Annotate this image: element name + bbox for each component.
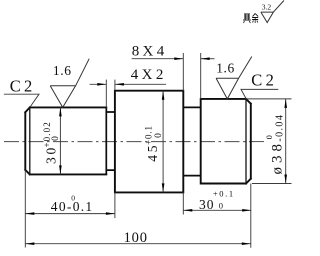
dimension 100 line [25,243,251,245]
extension line right face below (for 30 and 100) [250,184,252,248]
extension line middle-left below (for 40) [114,192,116,218]
dimension 40-0.1 line [25,213,115,215]
chamfer note C2 left leader [4,94,39,107]
groove 8x4 roots [183,107,200,175]
svg-text:1.6: 1.6 [53,63,72,78]
groove 4x2 left wall [105,107,107,174]
svg-text:0: 0 [264,135,274,139]
dimension dia38 text [264,114,286,175]
svg-text:100: 100 [124,230,148,246]
extension line groove1 left above [105,80,107,108]
svg-text:3.2: 3.2 [262,2,272,11]
dimension 30+0.02 text [42,121,61,164]
extension line middle-right above (for 8x4) [182,53,184,91]
svg-text:0: 0 [154,133,164,138]
extension line left end (for 40 and 100) [24,170,26,248]
svg-text:0: 0 [51,136,61,141]
svg-text:0: 0 [71,194,75,203]
left section ø30 outline [25,107,106,174]
roughness 3.2 general symbol [261,1,284,23]
dimension dia38 line [285,99,287,184]
extension line right-section-left above (for 8x4) [200,53,202,99]
groove 4x2 roots [106,112,115,170]
svg-text:1.6: 1.6 [216,60,235,75]
roughness 1.6 left symbol [50,59,89,108]
svg-text:+0.1: +0.1 [213,188,235,198]
middle section ø45 outline [115,91,183,193]
extension line dia38 bottom [252,183,292,185]
svg-text:-0.04: -0.04 [274,114,285,142]
roughness 1.6 right symbol [216,57,252,99]
right chamfer edge line [245,99,247,184]
right section ø38 outline [201,99,251,184]
dimension 4x2 line right part [115,83,166,85]
chamfer note C2 right leader [241,89,278,99]
extension line groove1 right above [114,80,116,91]
svg-text:+0.1: +0.1 [144,125,154,145]
dimension 45+0.1 line [162,91,164,193]
left chamfer edge line [29,107,31,174]
dimension 30+0.1 line [183,209,251,211]
dimension 8x4 line right part [201,58,215,60]
extension line dia38 top [246,98,292,100]
extension line middle-right below (for 30) [182,192,184,214]
dimension 30+0.02 line [59,107,61,174]
svg-text:30: 30 [199,197,215,212]
qiyu (rest) note characters [243,14,258,24]
svg-text:8 X 4: 8 X 4 [132,44,165,60]
centerline [4,141,266,143]
dimension 8x4 line left part [132,58,184,60]
dimension 4x2 line left part [90,83,107,85]
svg-text:+0.02: +0.02 [42,121,52,147]
svg-text:C 2: C 2 [251,70,273,89]
svg-text:0: 0 [219,201,223,211]
svg-text:ø38: ø38 [270,140,286,175]
dimension 45+0.1 text [144,125,165,162]
svg-text:C 2: C 2 [10,76,32,95]
svg-text:4 X 2: 4 X 2 [131,67,163,83]
